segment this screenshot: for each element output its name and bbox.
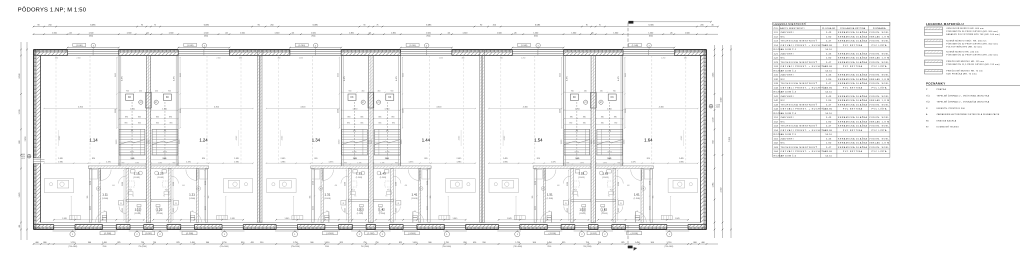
svg-text:1.500: 1.500 [463,32,468,34]
svg-text:950: 950 [260,242,263,244]
svg-text:OBKLAD 1,8 M: OBKLAD 1,8 M [869,57,890,60]
opening bottom wall x667 [667,225,688,227]
svg-text:ČÍS. NÁZOV MIESTNOSTI: ČÍS. NÁZOV MIESTNOSTI [774,27,805,30]
svg-text:5.47: 5.47 [826,126,832,128]
svg-text:250: 250 [270,25,273,27]
svg-text:KERAMICKÁ DLAŽBA: KERAMICKÁ DLAŽBA [838,103,867,106]
svg-text:(1.O02): (1.O02) [368,233,375,235]
svg-text:1.100: 1.100 [19,110,21,115]
bottom dimension chain [33,242,718,248]
opening bottom wall x102 [103,225,117,227]
svg-text:-0,020: -0,020 [21,156,25,158]
svg-text:835: 835 [378,117,381,119]
svg-text:NOSNÉ MÚRIVO VNÚT. HR. 430 mm: NOSNÉ MÚRIVO VNÚT. HR. 430 mm [946,39,986,42]
opening bottom wall x598 [598,225,612,227]
svg-text:1.450: 1.450 [635,242,640,244]
exterior left wall [34,50,41,230]
svg-text:-0,020: -0,020 [716,106,720,108]
svg-text:1.13: 1.13 [134,172,140,176]
svg-text:820: 820 [314,158,317,160]
svg-text:TEPELNÉ ČERPADLO - VNÚTORNÁ JE: TEPELNÉ ČERPADLO - VNÚTORNÁ JEDNOTKA [937,94,990,97]
opening bottom wall x626 [626,225,640,227]
svg-text:1.650: 1.650 [313,181,315,185]
kitchen counter unit 1.2 [223,179,253,193]
svg-text:420: 420 [251,242,254,244]
svg-text:KK: KK [611,97,615,99]
svg-text:VODON. SOKL: VODON. SOKL [869,62,889,64]
svg-text:1.375: 1.375 [353,158,357,160]
svg-text:1.900: 1.900 [395,182,397,186]
svg-text:6.305: 6.305 [648,25,654,27]
svg-text:1.650: 1.650 [205,181,207,185]
door arc entry unit 1.5 [540,212,551,223]
svg-text:1.900: 1.900 [344,182,346,186]
opening bottom wall x547 [547,225,561,227]
svg-text:43.80: 43.80 [825,66,833,68]
svg-text:2.485: 2.485 [457,158,462,160]
svg-text:LEGENDA MATERIÁLU: LEGENDA MATERIÁLU [926,21,964,26]
core extra dims unit 1.6 [596,124,623,126]
svg-text:1.845: 1.845 [230,218,235,220]
svg-text:900: 900 [168,90,171,92]
svg-text:4.475: 4.475 [396,76,398,81]
svg-text:KERAMICKÁ DLAŽBA: KERAMICKÁ DLAŽBA [838,137,867,140]
window opening top wall x290 [290,49,341,51]
svg-text:4.475: 4.475 [122,76,124,81]
unit pair 3/4 interior [266,43,476,237]
svg-text:1.51: 1.51 [547,192,553,196]
core dim chains unit 1.6 [624,58,626,129]
party wall x482 [480,56,485,223]
svg-text:1.500: 1.500 [89,32,94,34]
svg-text:1.500: 1.500 [533,32,538,34]
material swatch y60 [925,60,943,66]
svg-text:820: 820 [92,158,95,160]
svg-text:KT: KT [585,102,587,104]
svg-text:x45: x45 [69,32,72,34]
svg-text:4.300: 4.300 [78,107,84,109]
material legend [925,21,1021,76]
svg-text:1.80: 1.80 [826,121,832,123]
svg-text:KERAMICKÁ DLAŽBA: KERAMICKÁ DLAŽBA [838,125,867,128]
opening bottom wall x575 [575,225,589,227]
svg-text:PVC LIŠTA: PVC LIŠTA [872,44,887,47]
svg-text:ZÁDVERÍ: ZÁDVERÍ [781,74,794,77]
svg-text:PRIEČKOVÉ MURIVO HR. 115 mm: PRIEČKOVÉ MURIVO HR. 115 mm [946,60,984,63]
svg-text:890: 890 [569,123,572,125]
svg-text:1.450: 1.450 [190,242,195,244]
beam dashed line unit 1.1 [89,56,91,164]
svg-text:1.100: 1.100 [713,118,715,123]
svg-text:1.33: 1.33 [356,172,362,176]
svg-text:54.10: 54.10 [825,113,832,115]
core dim chains unit 1.1 [116,58,118,129]
chimney KT unit 1.2 [154,100,158,104]
svg-text:835: 835 [156,123,159,125]
opening markers unit 1.2 [222,232,227,237]
svg-text:1.750: 1.750 [385,108,390,110]
svg-text:FASÁDNY POLYSTYRÉN EPS 70F (HR: FASÁDNY POLYSTYRÉN EPS 70F (HR. 100 mm) [946,33,1000,36]
svg-text:1.375: 1.375 [607,158,611,160]
svg-text:400: 400 [335,185,338,187]
unit 1.5 walls [563,56,565,166]
svg-text:820: 820 [647,158,650,160]
svg-text:KERAMICKÁ DLAŽBA: KERAMICKÁ DLAŽBA [838,146,867,149]
svg-text:1.845: 1.845 [453,218,458,220]
svg-text:890: 890 [125,123,128,125]
svg-text:(1.O40): (1.O40) [187,45,194,47]
svg-text:1.41: 1.41 [411,192,417,196]
svg-text:850: 850 [464,242,467,244]
svg-text:(750+1000): (750+1000) [442,246,451,248]
svg-text:WC: WC [781,79,786,81]
opening markers unit 1.3 [292,232,297,237]
svg-text:1.100: 1.100 [560,109,562,113]
opening bottom wall x222 [222,225,243,227]
interior bottom wall inner face [41,222,701,224]
svg-text:POZNÁMKA: POZNÁMKA [873,27,886,30]
svg-text:835: 835 [601,123,604,125]
party wall x260 [257,56,262,223]
svg-text:850: 850 [241,242,244,244]
svg-text:835: 835 [583,123,586,125]
svg-text:ZÁDVERÍ: ZÁDVERÍ [781,116,794,119]
svg-text:2.910: 2.910 [624,140,626,145]
svg-text:6.085: 6.085 [90,25,96,27]
svg-text:6.085: 6.085 [204,25,210,27]
svg-text:x45: x45 [292,32,295,34]
svg-text:1.100: 1.100 [180,109,182,113]
svg-text:900: 900 [310,242,313,244]
svg-text:(1.D03): (1.D03) [380,177,387,179]
svg-text:4.300: 4.300 [214,107,220,109]
svg-text:ROZSAH DOM Č.6: ROZSAH DOM Č.6 [774,154,797,157]
svg-text:(900): (900) [204,36,208,38]
svg-text:KERAMICKÁ DLAŽBA: KERAMICKÁ DLAŽBA [838,99,867,102]
svg-text:1.500: 1.500 [240,32,245,34]
svg-text:2.485: 2.485 [58,158,63,160]
section mark top [628,21,633,24]
svg-text:(-1.D06): (-1.D06) [326,233,334,235]
svg-text:(1.D03): (1.D03) [578,177,585,179]
window tag unit 1.4 [406,43,419,46]
svg-text:900: 900 [571,90,574,92]
svg-text:1.985: 1.985 [503,161,508,163]
svg-text:820: 820 [537,158,540,160]
svg-text:KT: KT [362,102,364,104]
exterior top wall [34,50,707,56]
fireplace KK unit 1.3 [348,94,356,100]
svg-text:450: 450 [600,90,603,92]
svg-text:(-1.D06): (-1.D06) [104,233,112,235]
svg-text:1.425: 1.425 [625,73,627,77]
svg-text:PVC KRYTINA: PVC KRYTINA [843,44,863,47]
svg-text:OBKLAD 1,8 M: OBKLAD 1,8 M [869,99,890,102]
unit 1.2 walls [177,56,179,166]
svg-text:x45: x45 [225,32,228,34]
svg-text:VODON. SOKL: VODON. SOKL [869,83,889,85]
window opening top wall x178 [178,49,229,51]
svg-text:43.80: 43.80 [825,109,833,111]
svg-text:1.225: 1.225 [122,208,124,212]
svg-text:2.250: 2.250 [299,58,303,60]
internal dims unit 1.5 [489,162,591,164]
svg-text:(1.D03): (1.D03) [133,177,140,179]
svg-text:5.43: 5.43 [826,53,832,55]
svg-text:1.425: 1.425 [115,73,117,77]
svg-text:905: 905 [310,196,312,199]
svg-text:4.545: 4.545 [59,136,61,141]
svg-text:43.80: 43.80 [825,87,833,89]
svg-text:890: 890 [614,117,617,119]
overall dimension line with flag [630,21,711,23]
svg-text:450: 450 [361,90,364,92]
svg-text:825: 825 [621,242,624,244]
svg-text:1.450: 1.450 [102,242,107,244]
svg-text:54.10: 54.10 [825,70,832,72]
svg-text:4.475: 4.475 [173,76,175,81]
svg-text:(750+1000): (750+1000) [513,246,522,248]
svg-text:2.350: 2.350 [721,188,723,193]
svg-text:90: 90 [258,25,260,27]
svg-text:1.64: 1.64 [644,138,653,143]
beam dashed line unit 1.3 [311,56,313,164]
svg-text:(1.D04): (1.D04) [379,213,386,215]
svg-text:1.43: 1.43 [380,172,386,176]
svg-text:1.450: 1.450 [325,242,330,244]
svg-text:890: 890 [391,117,394,119]
svg-text:54.10: 54.10 [825,134,832,136]
svg-text:KERAMICKÁ DLAŽBA: KERAMICKÁ DLAŽBA [838,95,867,98]
svg-text:VODON. SOKL: VODON. SOKL [869,126,889,128]
exterior bottom wall [34,225,707,232]
svg-text:1.22: 1.22 [157,208,163,212]
svg-text:PVC LIŠTA: PVC LIŠTA [872,150,887,153]
svg-text:90: 90 [141,25,143,27]
svg-text:800: 800 [43,242,46,244]
svg-text:KERAMICKÁ DLAŽBA: KERAMICKÁ DLAŽBA [838,74,867,77]
svg-text:1.750: 1.750 [71,242,76,244]
svg-text:KERAMICKÁ DLAŽBA: KERAMICKÁ DLAŽBA [838,142,867,145]
svg-text:OBÝVACÍ PRIEST. + KUCHYŇA: OBÝVACÍ PRIEST. + KUCHYŇA [781,65,827,68]
kitchen counter unit 1.1 [44,179,73,193]
svg-text:1.375: 1.375 [409,161,414,163]
internal dims unit 1.3 [266,162,368,164]
svg-text:ROZSAH DOM Č.3: ROZSAH DOM Č.3 [774,91,797,94]
svg-text:(900): (900) [534,36,538,38]
svg-text:1.450: 1.450 [413,242,418,244]
svg-text:VODON. SOKL: VODON. SOKL [869,96,889,98]
svg-text:POLYSTYRÉN EPS (HR. 30 mm): POLYSTYRÉN EPS (HR. 30 mm) [946,45,982,48]
svg-text:1.845: 1.845 [507,218,512,220]
svg-text:KERAMICKÁ DLAŽBA: KERAMICKÁ DLAŽBA [838,57,867,60]
svg-text:400: 400 [35,242,38,244]
svg-text:835: 835 [360,117,363,119]
partition walls unit 1.6 [650,169,652,223]
internal dim unit 1.3 [275,219,367,221]
svg-text:ROZSAH DOM Č.1: ROZSAH DOM Č.1 [774,48,797,51]
svg-text:OBÝVACÍ PRIEST. + KUCHYŇA: OBÝVACÍ PRIEST. + KUCHYŇA [781,150,827,153]
svg-text:3.540: 3.540 [721,98,723,103]
left dimension chains [19,42,28,240]
svg-text:(750+1000): (750+1000) [69,246,78,248]
svg-text:ZÁDVERÍ: ZÁDVERÍ [781,52,794,55]
internal dims unit 1.2 [151,162,253,164]
fireplace KK unit 1.2 [163,94,171,100]
party wall between 1.1 and 1.2 [146,56,151,223]
svg-text:UMIESTN. PRÍSTROJ 300: UMIESTN. PRÍSTROJ 300 [937,107,966,110]
svg-text:2100: 2100 [547,246,551,248]
svg-text:2.485: 2.485 [281,158,286,160]
svg-text:825: 825 [399,242,402,244]
window opening top wall x68 [68,49,119,51]
svg-text:PVC LIŠTA: PVC LIŠTA [872,65,887,68]
svg-text:1.225: 1.225 [173,208,175,212]
svg-text:KK: KK [128,97,132,99]
svg-text:1.300: 1.300 [571,32,576,34]
svg-text:2.485: 2.485 [234,158,239,160]
svg-text:1.375: 1.375 [313,206,315,210]
core dim chains unit 1.2 [179,58,181,129]
svg-text:(900): (900) [89,36,93,38]
svg-text:4.300: 4.300 [659,107,665,109]
core extra dims unit 1.5 [564,124,591,126]
svg-text:4.475: 4.475 [618,76,620,81]
svg-text:900: 900 [651,242,654,244]
svg-text:(750+1000): (750+1000) [665,246,674,248]
svg-text:PVC KRYTINA: PVC KRYTINA [843,150,863,153]
svg-text:250: 250 [48,25,51,27]
core extra dims unit 1.2 [151,124,178,126]
svg-text:x45: x45 [591,32,594,34]
svg-text:5.47: 5.47 [826,104,832,106]
svg-text:900: 900 [613,90,616,92]
window opening top wall x401 [401,49,452,51]
svg-text:1.80: 1.80 [826,58,832,60]
svg-text:KT: KT [600,102,602,104]
core extra dims unit 1.4 [373,124,400,126]
svg-text:1.650: 1.650 [90,181,92,185]
svg-text:1.53: 1.53 [578,172,584,176]
stairs unit 1.6 [597,129,623,155]
svg-text:485: 485 [19,225,21,228]
svg-text:(900): (900) [311,36,315,38]
svg-text:90: 90 [363,25,365,27]
svg-text:1.375: 1.375 [130,158,134,160]
window tag unit 1.5 [518,43,531,46]
svg-text:PÓROBETÓN 11,5 PROFI DRYFIX (H: PÓROBETÓN 11,5 PROFI DRYFIX (HR. 115 mm) [946,63,999,66]
svg-text:(1.D06): (1.D06) [324,198,331,200]
svg-text:900: 900 [88,242,91,244]
svg-text:WC: WC [781,143,786,145]
svg-text:5.47: 5.47 [826,41,832,43]
svg-text:VODON. SOKL: VODON. SOKL [869,138,889,140]
svg-text:1.965: 1.965 [713,183,715,188]
svg-text:(1.D06): (1.D06) [189,198,196,200]
svg-text:KERAMICKÁ DLAŽBA: KERAMICKÁ DLAŽBA [838,31,867,34]
opening bottom wall x325 [325,225,339,227]
svg-text:835: 835 [583,117,586,119]
fireplace KK unit 1.4 [386,94,394,100]
svg-text:905: 905 [430,196,432,199]
svg-text:1.750: 1.750 [222,242,227,244]
svg-text:1.375: 1.375 [162,158,166,160]
svg-text:90: 90 [480,25,482,27]
window tag unit 1.3 [295,43,308,46]
svg-text:KT: KT [140,102,142,104]
svg-text:WC: WC [781,121,786,123]
svg-text:(1.D06): (1.D06) [547,198,554,200]
svg-text:1.375: 1.375 [106,161,111,163]
svg-text:1.375: 1.375 [575,158,579,160]
svg-text:1.845: 1.845 [62,218,67,220]
svg-text:2.910: 2.910 [116,140,118,145]
svg-text:54.10: 54.10 [825,155,832,157]
svg-text:VODON. SOKL: VODON. SOKL [869,147,889,149]
svg-text:1.985: 1.985 [281,161,286,163]
svg-text:75: 75 [376,25,378,27]
svg-text:75: 75 [104,211,106,213]
kitchen counter unit 1.3 [267,179,297,193]
svg-text:1.650: 1.650 [650,181,652,185]
svg-text:PRIEČKOVÉ MURIVO HR. 75 mm: PRIEČKOVÉ MURIVO HR. 75 mm [946,70,983,73]
svg-text:54.10: 54.10 [825,49,832,51]
material swatch y27 [925,27,943,35]
unit 1.1 walls [118,56,120,166]
svg-text:7.250: 7.250 [729,136,731,142]
svg-text:1.750: 1.750 [667,242,672,244]
svg-text:VODON. SOKL: VODON. SOKL [869,53,889,55]
internal dim unit 1.1 [53,219,145,221]
svg-text:KERAMICKÁ DLAŽBA: KERAMICKÁ DLAŽBA [838,61,867,64]
opening markers unit 1.6 [667,232,672,237]
svg-text:OBÝVACÍ PRIEST. + KUCHYŇA: OBÝVACÍ PRIEST. + KUCHYŇA [781,108,827,111]
opening markers unit 1.5 [515,232,520,237]
svg-text:OBKLAD 1,8 M: OBKLAD 1,8 M [869,78,890,81]
svg-text:1.300: 1.300 [349,32,354,34]
svg-text:1.54: 1.54 [534,138,543,143]
core dim chains unit 1.4 [402,58,404,129]
svg-text:900: 900 [348,90,351,92]
svg-text:ZÁDVERÍ: ZÁDVERÍ [781,95,794,98]
beam dashed line unit 1.6 [651,56,653,164]
svg-text:890: 890 [347,117,350,119]
svg-text:WC: WC [781,100,786,102]
svg-text:900: 900 [126,90,129,92]
svg-text:2.250: 2.250 [521,58,525,60]
svg-text:1.500: 1.500 [426,32,431,34]
svg-text:900: 900 [428,242,431,244]
svg-text:(1.O40): (1.O40) [521,45,528,47]
svg-text:(-1.D06): (-1.D06) [408,233,416,235]
svg-text:TECHNICKÁ MIESTNOSŤ: TECHNICKÁ MIESTNOSŤ [781,125,818,128]
svg-text:WC: WC [781,58,786,60]
chimney block pair 2 [368,93,374,109]
svg-text:1.500: 1.500 [648,32,653,34]
svg-text:1.650: 1.650 [535,181,537,185]
svg-text:(1.O02): (1.O02) [590,233,597,235]
svg-text:PVC KRYTINA: PVC KRYTINA [843,129,863,132]
door arc entry unit 1.3 [318,212,329,223]
internal dims unit 1.4 [373,162,475,164]
unit 1.4 walls [399,56,401,166]
opening bottom wall x181 [181,225,195,227]
svg-text:1.23: 1.23 [158,172,164,176]
svg-text:2.250: 2.250 [439,58,443,60]
svg-text:(1.D06): (1.D06) [411,198,418,200]
svg-text:750: 750 [586,242,589,244]
svg-text:OBÝVACÍ PRIEST. + KUCHYŇA: OBÝVACÍ PRIEST. + KUCHYŇA [781,129,827,132]
